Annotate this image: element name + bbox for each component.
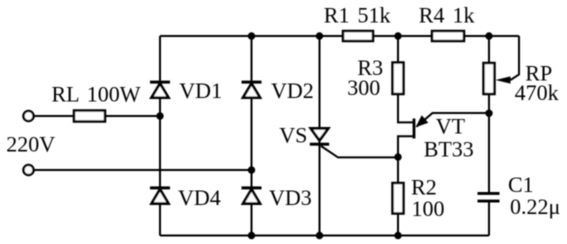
svg-text:0.22μ: 0.22μ (510, 194, 560, 219)
svg-text:220V: 220V (6, 132, 55, 157)
svg-text:VT: VT (436, 114, 466, 139)
svg-text:VD2: VD2 (271, 78, 314, 103)
svg-text:300: 300 (347, 75, 380, 100)
svg-text:RL 100W: RL 100W (52, 82, 141, 107)
svg-text:470k: 470k (515, 80, 559, 105)
svg-text:VD4: VD4 (178, 185, 221, 210)
svg-text:VS: VS (279, 123, 307, 148)
svg-text:VD1: VD1 (179, 78, 222, 103)
svg-text:VD3: VD3 (269, 185, 312, 210)
svg-text:100: 100 (412, 196, 445, 221)
svg-text:R1 51k: R1 51k (324, 3, 391, 28)
svg-text:BT33: BT33 (424, 137, 474, 162)
svg-text:R4 1k: R4 1k (419, 3, 475, 28)
